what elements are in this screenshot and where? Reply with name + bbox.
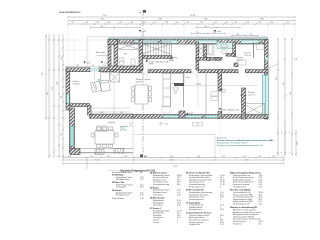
- svg-text:Blockstufe: Blockstufe: [96, 51, 106, 54]
- teal line above top wall: [108, 38, 268, 40]
- svg-text:2,13: 2,13: [107, 156, 110, 158]
- east wall: [265, 40, 269, 120]
- svg-text:Flur: Flur: [186, 77, 190, 79]
- svg-text:7,01: 7,01: [245, 159, 249, 161]
- svg-text:1,26: 1,26: [258, 22, 261, 24]
- roof overhang light outline upper-left: [87, 37, 108, 71]
- bath teal floor tint: [217, 43, 233, 49]
- svg-text:1,13: 1,13: [214, 22, 217, 24]
- svg-text:0: 0: [277, 152, 278, 154]
- svg-text:Fenster gem. Liste: Fenster gem. Liste: [189, 185, 205, 188]
- svg-text:46.9: 46.9: [177, 184, 181, 186]
- bottom dimension rows: [62, 157, 285, 170]
- svg-text:Reduit: Reduit: [196, 83, 202, 86]
- svg-text:0: 0: [289, 132, 290, 134]
- svg-text:1,13: 1,13: [286, 22, 289, 24]
- svg-text:1,76: 1,76: [61, 133, 63, 136]
- svg-text:,88: ,88: [176, 22, 178, 24]
- svg-text:4,76: 4,76: [47, 92, 49, 95]
- svg-text:4,13: 4,13: [283, 82, 285, 85]
- lower wing left glazed wall: [70, 108, 75, 153]
- svg-text:1,51: 1,51: [200, 22, 203, 24]
- svg-text:7,36: 7,36: [100, 19, 104, 21]
- svg-text:Vorplatz Kies: Vorplatz Kies: [189, 223, 200, 226]
- svg-text:+4,32: +4,32: [142, 31, 147, 33]
- level marker annotation center: [146, 61, 148, 63]
- svg-text:-0.15: -0.15: [104, 63, 108, 65]
- svg-text:0: 0: [281, 152, 282, 154]
- svg-text:2,26: 2,26: [68, 156, 71, 158]
- corridor wall under north wing: [114, 70, 268, 73]
- svg-text:Deckenputz: Deckenputz: [153, 204, 163, 207]
- svg-text:1,63: 1,63: [270, 22, 273, 24]
- svg-text:Wandputz weiss: Wandputz weiss: [116, 178, 130, 181]
- svg-text:Fussbodenheizung: Fussbodenheizung: [153, 184, 169, 186]
- svg-text:Verkehrsflaeche VF: Verkehrsflaeche VF: [233, 203, 250, 206]
- svg-text:OK FB: OK FB: [149, 64, 155, 66]
- svg-text:1,26: 1,26: [85, 22, 88, 24]
- svg-text:Anmerkung:: Anmerkung:: [217, 137, 227, 140]
- kitchen partition light line: [94, 72, 96, 80]
- svg-text:Wandputz weiss: Wandputz weiss: [189, 208, 203, 211]
- svg-text:12.4: 12.4: [140, 179, 144, 181]
- north wing interior walls: [139, 40, 143, 71]
- svg-text:7,13: 7,13: [95, 159, 99, 161]
- svg-text:1,26: 1,26: [124, 156, 127, 158]
- svg-text:Deckenputz: Deckenputz: [153, 193, 163, 196]
- svg-text:8.91: 8.91: [140, 187, 144, 189]
- steps hatch: [95, 149, 124, 155]
- svg-text:2,01: 2,01: [204, 26, 207, 28]
- west low wall piece: [71, 104, 90, 107]
- svg-text:1,13: 1,13: [143, 22, 146, 24]
- svg-text:3: 3: [220, 199, 221, 201]
- svg-text:Sanitaerapparate: Sanitaerapparate: [189, 198, 204, 201]
- svg-text:Deckenputz: Deckenputz: [116, 186, 126, 189]
- interior door arcs and misc light lines: [114, 73, 258, 115]
- top dimension row 1: [67, 16, 296, 18]
- west wall of north wing: [114, 40, 118, 71]
- svg-text:1,13: 1,13: [249, 34, 252, 36]
- svg-text:1,38: 1,38: [130, 22, 133, 24]
- svg-text:2,26: 2,26: [100, 26, 103, 28]
- svg-text:2,01: 2,01: [243, 156, 246, 158]
- svg-text:,95: ,95: [92, 65, 94, 67]
- svg-text:9.22: 9.22: [140, 195, 144, 197]
- bedroom furniture: [238, 43, 264, 66]
- svg-text:6.10: 6.10: [177, 205, 181, 207]
- svg-text:8,01: 8,01: [170, 159, 174, 161]
- svg-text:1,38: 1,38: [107, 22, 110, 24]
- svg-text:2,38: 2,38: [57, 82, 59, 85]
- svg-text:4,93: 4,93: [204, 19, 208, 21]
- svg-text:12.4: 12.4: [259, 204, 263, 206]
- svg-text:1: 1: [177, 222, 178, 224]
- small dim above south wall: [92, 113, 134, 114]
- svg-text:1,26: 1,26: [258, 156, 261, 158]
- svg-text:Bad: Bad: [202, 55, 206, 57]
- svg-text:8,11: 8,11: [42, 72, 44, 75]
- svg-text:23,95: 23,95: [190, 15, 196, 17]
- svg-text:WC: WC: [124, 54, 128, 56]
- svg-text:1,13: 1,13: [236, 34, 239, 36]
- top dimension row 3: [67, 23, 296, 25]
- micro dim above main north wall: [66, 66, 115, 67]
- wall under stairs: [143, 56, 173, 59]
- svg-text:5: 5: [285, 152, 286, 154]
- svg-text:3,60: 3,60: [103, 15, 107, 17]
- svg-text:+4,32: +4,32: [217, 31, 222, 33]
- svg-text:0: 0: [281, 132, 282, 134]
- teal micro annotation dining: [120, 125, 129, 131]
- main north exterior wall (left part): [66, 68, 90, 72]
- main west wall: [66, 68, 70, 110]
- north wall with windows: [114, 40, 268, 45]
- kitchen counters: [91, 73, 184, 107]
- svg-text:0: 0: [289, 152, 290, 154]
- svg-text:2,13: 2,13: [222, 156, 225, 158]
- roof overhang band: [108, 36, 268, 38]
- svg-text:13.50 m2: 13.50 m2: [73, 83, 80, 85]
- col1: [112, 171, 144, 200]
- south wall with glazing: [90, 115, 269, 119]
- svg-text:5: 5: [285, 132, 286, 134]
- room labels: [73, 51, 248, 97]
- svg-text:-0.30: -0.30: [87, 63, 91, 65]
- kitchen bench light lines: [91, 107, 130, 109]
- svg-text:Sitzplatz: Sitzplatz: [108, 121, 115, 124]
- stairs: [143, 42, 172, 56]
- right dimension column: [277, 38, 293, 156]
- svg-text:1,51: 1,51: [186, 22, 189, 24]
- svg-text:1,26: 1,26: [246, 22, 249, 24]
- svg-text:Planformat: Planformat: [233, 222, 243, 225]
- svg-text:Sonnenschutz gemaess separater: Sonnenschutz gemaess separater Beschreib…: [217, 144, 263, 147]
- teal niche in kitchen: [98, 80, 101, 85]
- svg-text:A3: A3: [259, 222, 261, 225]
- svg-text:2,38: 2,38: [76, 65, 79, 67]
- right rooms furniture: [211, 92, 218, 101]
- svg-text:8,11: 8,11: [294, 59, 297, 61]
- lower wing bottom: [70, 148, 134, 150]
- svg-text:1,51: 1,51: [61, 57, 63, 60]
- left extension lines: [44, 40, 114, 156]
- col3: [186, 172, 225, 227]
- svg-text:3,51: 3,51: [276, 77, 278, 80]
- blockstufe text + leader: [97, 54, 109, 56]
- svg-text:14.22 m2: 14.22 m2: [248, 94, 255, 96]
- svg-text:,88: ,88: [225, 22, 227, 24]
- top dimension row 4 short segments: [89, 27, 241, 29]
- svg-text:-0,12: -0,12: [189, 113, 193, 115]
- svg-text:3: 3: [220, 186, 221, 188]
- svg-text:Leichtbauwand: Leichtbauwand: [233, 185, 246, 188]
- svg-text:0,00 = 435,30 m.u.M.: 0,00 = 435,30 m.u.M.: [222, 109, 240, 111]
- svg-text:4.20: 4.20: [177, 194, 181, 196]
- svg-text:46,90 m2: 46,90 m2: [136, 82, 143, 84]
- svg-text:1,13: 1,13: [153, 22, 156, 24]
- svg-text:1,51: 1,51: [272, 156, 275, 158]
- svg-text:22.1: 22.1: [220, 224, 224, 226]
- svg-text:1,01: 1,01: [96, 22, 99, 24]
- wall between right rooms: [242, 88, 246, 119]
- left dimension column: [45, 34, 64, 158]
- svg-text:0.10: 0.10: [259, 186, 263, 188]
- svg-text:↗: ↗: [301, 57, 303, 60]
- svg-text:0: 0: [277, 132, 278, 134]
- svg-text:1,68: 1,68: [120, 112, 123, 114]
- terrace outline: [133, 135, 215, 158]
- extension lines to bottom dims: [63, 120, 284, 165]
- svg-text:1,51: 1,51: [103, 65, 106, 67]
- svg-text:1,01: 1,01: [119, 22, 122, 24]
- svg-text:Wandputz weiss: Wandputz weiss: [116, 194, 130, 197]
- svg-text:22.8: 22.8: [220, 209, 224, 211]
- kitchen counter fixtures: [174, 72, 199, 107]
- section marker on top band: [142, 10, 144, 158]
- svg-text:23,95: 23,95: [173, 166, 178, 168]
- wc fixtures: [119, 58, 135, 66]
- svg-text:1,88: 1,88: [100, 112, 103, 114]
- svg-text:2,01: 2,01: [297, 142, 299, 145]
- svg-text:12,57 m2: 12,57 m2: [236, 60, 243, 62]
- svg-text:1,26: 1,26: [165, 22, 168, 24]
- small level markers below dims: [139, 30, 216, 32]
- terrace edge up line: [132, 118, 134, 134]
- vertical extension lines from top dims to building: [68, 25, 295, 68]
- col4: [230, 172, 263, 226]
- svg-text:17,35 m2: 17,35 m2: [219, 92, 226, 94]
- living dining table: [132, 85, 152, 104]
- svg-text:Tueren: Tueren: [153, 221, 159, 224]
- garden NW extension lines: [60, 37, 88, 69]
- svg-text:1,38: 1,38: [61, 96, 63, 99]
- svg-text:5.10: 5.10: [140, 198, 144, 200]
- wardrobe: [118, 43, 139, 50]
- svg-text:1,51: 1,51: [196, 32, 199, 34]
- level annotation right corridor: [219, 108, 221, 110]
- svg-text:12.07 m2: 12.07 m2: [244, 55, 251, 57]
- svg-text:PLAN GRUNDRISS EG: PLAN GRUNDRISS EG: [59, 11, 81, 14]
- lower wing dining table: [91, 127, 118, 148]
- col2: [150, 172, 182, 224]
- svg-text:6,38: 6,38: [260, 19, 264, 21]
- void X rect right: [243, 104, 265, 116]
- svg-text:1,51: 1,51: [90, 156, 93, 158]
- svg-text:Zimmer: Zimmer: [240, 95, 247, 97]
- top dimension row 2: [67, 20, 296, 22]
- svg-text:1,26: 1,26: [234, 22, 237, 24]
- svg-text:4,38: 4,38: [158, 19, 162, 21]
- svg-text:0.00: 0.00: [165, 124, 168, 126]
- main band interior walls: [183, 72, 185, 107]
- svg-text:1,51: 1,51: [71, 22, 74, 24]
- bathroom fixtures: [199, 44, 227, 56]
- east glazing teal band: [263, 75, 269, 115]
- svg-text:3,51: 3,51: [52, 87, 54, 90]
- svg-text:Sockel Platten: Sockel Platten: [112, 197, 124, 200]
- svg-text:4,63: 4,63: [290, 92, 292, 95]
